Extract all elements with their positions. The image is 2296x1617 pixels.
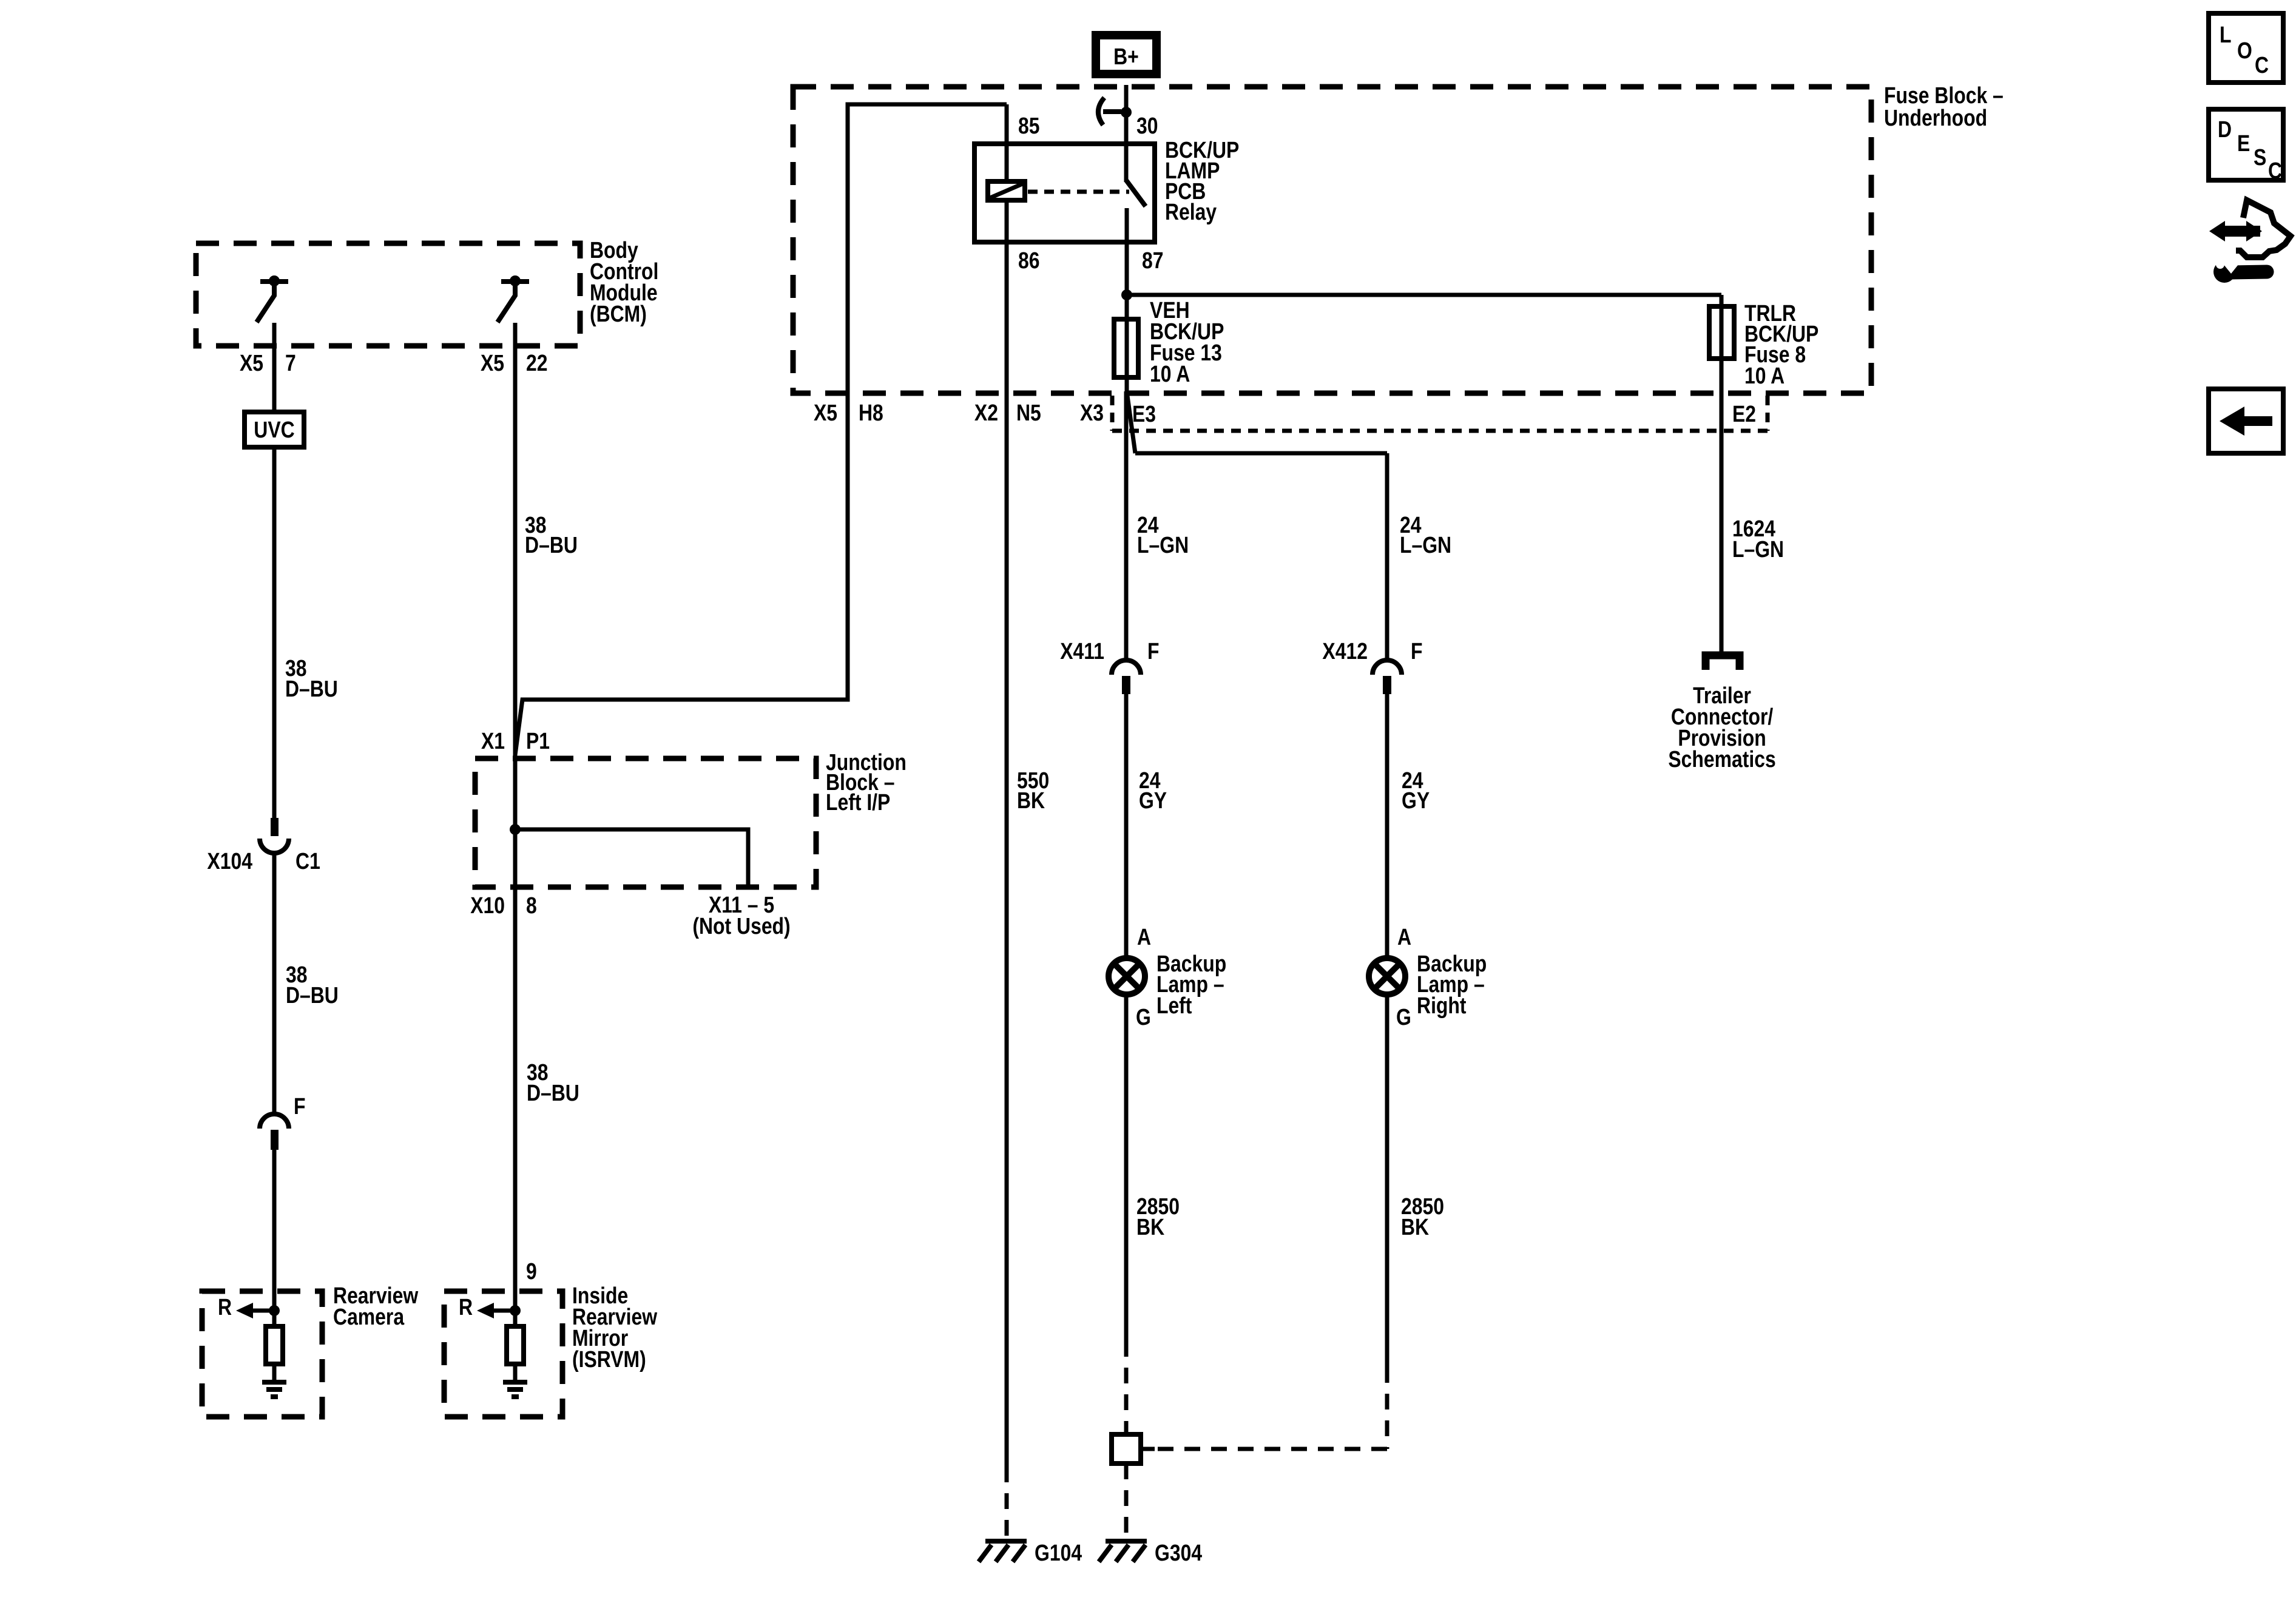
- svg-text:L–GN: L–GN: [1732, 536, 1784, 562]
- svg-text:Schematics: Schematics: [1668, 746, 1775, 772]
- svg-text:E: E: [2237, 130, 2250, 156]
- svg-text:C1: C1: [295, 848, 320, 874]
- svg-text:G104: G104: [1035, 1540, 1082, 1565]
- svg-text:BK: BK: [1136, 1214, 1164, 1240]
- svg-text:X411: X411: [1060, 638, 1104, 664]
- svg-text:O: O: [2237, 38, 2252, 63]
- svg-text:D: D: [2218, 116, 2232, 142]
- svg-text:R: R: [459, 1294, 473, 1320]
- svg-text:N5: N5: [1016, 400, 1041, 425]
- svg-text:B+: B+: [1113, 44, 1139, 69]
- svg-text:E2: E2: [1732, 401, 1756, 427]
- svg-text:X2: X2: [974, 400, 998, 425]
- svg-text:7: 7: [285, 350, 296, 376]
- svg-text:BK: BK: [1017, 788, 1045, 813]
- svg-text:G304: G304: [1155, 1540, 1203, 1565]
- svg-text:G: G: [1136, 1004, 1151, 1030]
- svg-text:22: 22: [526, 350, 548, 376]
- svg-text:G: G: [1396, 1004, 1411, 1030]
- svg-text:8: 8: [526, 893, 537, 918]
- svg-text:C: C: [2255, 52, 2269, 78]
- svg-text:10 A: 10 A: [1744, 363, 1784, 388]
- svg-text:L: L: [2220, 22, 2231, 47]
- svg-text:D–BU: D–BU: [525, 532, 578, 558]
- svg-text:10 A: 10 A: [1150, 361, 1190, 387]
- svg-text:L–GN: L–GN: [1137, 532, 1189, 558]
- svg-text:C: C: [2268, 158, 2282, 183]
- svg-text:UVC: UVC: [254, 417, 294, 442]
- svg-text:GY: GY: [1402, 788, 1430, 813]
- svg-text:Fuse Block –: Fuse Block –: [1884, 83, 2004, 108]
- svg-text:(BCM): (BCM): [590, 301, 647, 326]
- svg-text:85: 85: [1018, 113, 1040, 138]
- svg-text:F: F: [1411, 638, 1423, 664]
- svg-text:A: A: [1397, 924, 1411, 950]
- svg-text:L–GN: L–GN: [1400, 532, 1451, 558]
- svg-text:Right: Right: [1417, 993, 1467, 1018]
- svg-text:(ISRVM): (ISRVM): [572, 1346, 646, 1372]
- svg-text:D–BU: D–BU: [527, 1080, 579, 1106]
- svg-text:X3: X3: [1080, 400, 1104, 425]
- svg-text:87: 87: [1142, 248, 1164, 273]
- svg-text:X104: X104: [207, 848, 252, 874]
- svg-text:X5: X5: [481, 350, 504, 376]
- svg-text:Left: Left: [1156, 993, 1192, 1018]
- svg-text:86: 86: [1018, 248, 1040, 273]
- svg-text:X5: X5: [240, 350, 263, 376]
- svg-text:Relay: Relay: [1165, 199, 1217, 224]
- svg-text:F: F: [1147, 638, 1159, 664]
- svg-text:D–BU: D–BU: [286, 982, 339, 1008]
- svg-text:F: F: [294, 1093, 305, 1119]
- svg-text:X1: X1: [481, 728, 505, 754]
- svg-text:BK: BK: [1401, 1214, 1429, 1240]
- svg-text:Left I/P: Left I/P: [826, 789, 890, 815]
- svg-text:P1: P1: [526, 728, 550, 754]
- svg-text:Camera: Camera: [333, 1304, 405, 1329]
- svg-text:D–BU: D–BU: [285, 676, 338, 701]
- svg-text:30: 30: [1136, 113, 1158, 138]
- svg-text:(Not Used): (Not Used): [692, 913, 790, 939]
- svg-text:X10: X10: [470, 893, 505, 918]
- svg-text:9: 9: [526, 1258, 537, 1284]
- svg-text:S: S: [2254, 144, 2266, 170]
- svg-text:H8: H8: [859, 400, 883, 425]
- svg-text:E3: E3: [1132, 401, 1156, 427]
- svg-text:A: A: [1137, 924, 1151, 950]
- svg-text:R: R: [218, 1294, 232, 1320]
- svg-text:GY: GY: [1139, 788, 1167, 813]
- svg-text:Underhood: Underhood: [1884, 105, 1987, 130]
- svg-text:X5: X5: [814, 400, 837, 425]
- svg-text:X412: X412: [1322, 638, 1368, 664]
